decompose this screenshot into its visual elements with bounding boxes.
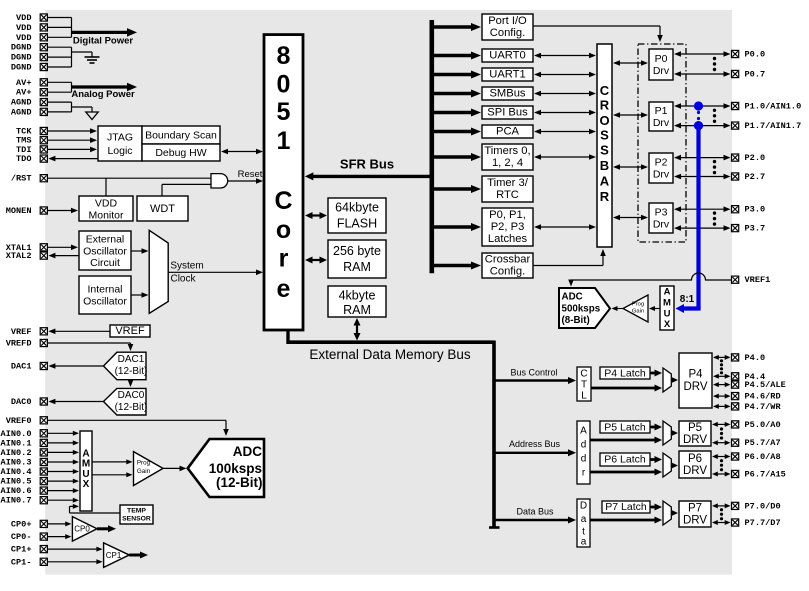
svg-text:O: O [599,113,609,128]
svg-text:AV+: AV+ [16,78,31,88]
svg-text:CP1+: CP1+ [11,545,32,555]
svg-text:P0, P1,: P0, P1, [489,209,526,221]
svg-text:TDO: TDO [16,154,31,164]
svg-text:JTAG: JTAG [107,132,133,144]
svg-text:SPI Bus: SPI Bus [487,107,528,119]
svg-text:Analog Power: Analog Power [71,89,135,100]
svg-text:DRV: DRV [683,465,707,477]
svg-text:DAC0: DAC0 [118,390,145,401]
svg-text:TEMP: TEMP [127,508,146,515]
svg-text:P7.7/D7: P7.7/D7 [745,518,781,528]
svg-text:Debug HW: Debug HW [155,147,206,159]
svg-text:R: R [600,189,610,204]
svg-text:AIN0.1: AIN0.1 [1,438,32,448]
svg-text:DAC1: DAC1 [11,362,32,372]
svg-text:AIN0.4: AIN0.4 [1,467,32,477]
svg-text:XTAL2: XTAL2 [6,251,32,261]
svg-text:P2.7: P2.7 [745,172,766,182]
svg-text:DRV: DRV [683,515,707,527]
svg-text:A: A [600,174,610,189]
svg-text:P6: P6 [688,453,702,465]
svg-text:P0.0: P0.0 [745,50,766,60]
svg-text:Drv: Drv [653,219,670,231]
svg-text:AIN0.6: AIN0.6 [1,486,32,496]
svg-text:Reset: Reset [238,169,263,180]
svg-text:P3.7: P3.7 [745,224,766,234]
svg-text:R: R [600,98,610,113]
svg-text:P3: P3 [655,207,668,219]
svg-text:RTC: RTC [496,189,519,201]
svg-text:AIN0.5: AIN0.5 [1,477,32,487]
svg-text:P4.7/WR: P4.7/WR [745,402,782,412]
svg-text:CP0: CP0 [74,525,90,534]
svg-text:P6.7/A15: P6.7/A15 [745,470,786,480]
svg-text:CP1-: CP1- [11,557,32,567]
svg-text:B: B [600,158,609,173]
svg-text:e: e [277,275,291,303]
svg-text:Address Bus: Address Bus [509,439,561,449]
svg-text:DAC0: DAC0 [11,397,32,407]
svg-text:X: X [83,479,90,490]
svg-text:P6.0/A8: P6.0/A8 [745,452,781,462]
svg-text:Digital Power: Digital Power [73,35,133,46]
svg-text:X: X [664,319,671,330]
svg-text:SENSOR: SENSOR [122,516,151,523]
svg-text:UART0: UART0 [489,50,525,62]
svg-text:P2, P3: P2, P3 [491,221,525,233]
svg-text:P4.5/ALE: P4.5/ALE [745,380,786,390]
svg-text:256 byte: 256 byte [333,244,381,258]
svg-text:(8-Bit): (8-Bit) [562,315,590,326]
svg-text:Oscillator: Oscillator [83,296,127,308]
svg-text:Drv: Drv [653,169,670,181]
svg-text:(12-Bit): (12-Bit) [115,402,148,413]
svg-text:d: d [581,454,587,465]
svg-text:C: C [274,187,292,215]
svg-text:a: a [581,514,587,525]
svg-text:DGND: DGND [11,63,32,73]
svg-text:Monitor: Monitor [88,210,124,222]
svg-text:T: T [581,380,587,391]
svg-text:Boundary Scan: Boundary Scan [145,130,217,142]
svg-text:5: 5 [277,98,291,126]
svg-text:DGND: DGND [11,43,32,53]
svg-text:AGND: AGND [11,107,32,117]
svg-text:MONEN: MONEN [6,206,32,216]
svg-text:AIN0.2: AIN0.2 [1,448,32,458]
svg-text:Clock: Clock [170,274,196,285]
svg-text:A: A [664,287,671,298]
svg-text:SFR Bus: SFR Bus [340,157,394,172]
svg-text:System: System [170,261,203,272]
svg-text:0: 0 [277,71,291,99]
svg-text:AGND: AGND [11,98,32,108]
svg-text:External: External [86,234,125,246]
svg-text:VDD: VDD [16,23,31,33]
svg-text:PCA: PCA [496,126,520,138]
svg-text:P0: P0 [655,53,668,65]
svg-text:P6 Latch: P6 Latch [604,454,646,466]
svg-text:Crossbar: Crossbar [485,254,531,266]
svg-text:Logic: Logic [107,145,132,157]
svg-text:8:1: 8:1 [680,294,695,305]
svg-text:Gain: Gain [632,309,644,315]
svg-text:Port I/O: Port I/O [488,15,527,27]
svg-text:RAM: RAM [343,260,371,274]
svg-text:C: C [600,83,610,98]
svg-text:VDD: VDD [95,198,118,210]
svg-text:Latches: Latches [488,233,528,245]
svg-text:P0.7: P0.7 [745,70,766,80]
svg-text:1: 1 [277,127,291,155]
svg-text:A: A [580,426,587,437]
svg-text:P2.0: P2.0 [745,153,766,163]
svg-text:External Data Memory Bus: External Data Memory Bus [309,347,471,362]
svg-text:UART1: UART1 [489,69,525,81]
svg-text:ADC: ADC [562,292,583,303]
svg-text:P4: P4 [688,369,703,381]
svg-text:Internal: Internal [87,284,122,296]
svg-text:C: C [580,369,587,380]
svg-text:Prog: Prog [137,460,151,467]
svg-text:VREF: VREF [115,325,145,337]
svg-text:DRV: DRV [683,381,707,393]
svg-text:P4.6/RD: P4.6/RD [745,392,781,402]
svg-text:L: L [581,391,587,402]
svg-text:SMBus: SMBus [489,88,525,100]
svg-text:VDD: VDD [16,33,31,43]
svg-text:Circuit: Circuit [90,257,120,269]
svg-text:P5.7/A7: P5.7/A7 [745,438,781,448]
svg-text:d: d [581,440,587,451]
svg-text:DAC1: DAC1 [118,354,145,365]
svg-text:P7.0/D0: P7.0/D0 [745,501,781,511]
svg-text:WDT: WDT [150,203,175,215]
svg-text:Config.: Config. [490,266,525,278]
svg-text:P5: P5 [688,422,702,434]
svg-text:P5 Latch: P5 Latch [604,422,646,434]
svg-text:CP1: CP1 [106,551,122,560]
svg-text:CP0+: CP0+ [11,519,32,529]
svg-text:VREF: VREF [11,327,32,337]
svg-text:VDD: VDD [16,13,31,23]
svg-text:P7 Latch: P7 Latch [605,501,647,513]
svg-text:(12-Bit): (12-Bit) [115,366,148,377]
svg-text:U: U [664,308,671,319]
svg-text:AIN0.3: AIN0.3 [1,458,32,468]
svg-text:CP0-: CP0- [11,532,32,542]
svg-text:P3.0: P3.0 [745,205,766,215]
svg-text:Gain: Gain [137,468,151,475]
svg-text:1, 2, 4: 1, 2, 4 [492,157,523,169]
svg-text:Bus Control: Bus Control [510,368,557,378]
svg-text:VREF1: VREF1 [745,275,771,285]
svg-text:ADC: ADC [233,444,262,459]
svg-text:/RST: /RST [11,174,32,184]
svg-text:RAM: RAM [343,303,371,317]
svg-text:a: a [581,537,587,548]
svg-text:o: o [276,216,291,244]
svg-text:r: r [279,245,289,273]
svg-text:FLASH: FLASH [337,217,377,231]
svg-text:Drv: Drv [653,117,670,129]
svg-text:100ksps: 100ksps [209,461,262,476]
svg-text:Timers 0,: Timers 0, [484,145,530,157]
svg-text:P1: P1 [655,105,668,117]
svg-text:8: 8 [277,42,291,70]
svg-text:VREFD: VREFD [6,339,32,349]
svg-text:P1.0/AIN1.0: P1.0/AIN1.0 [745,102,802,112]
svg-text:D: D [580,501,587,512]
svg-text:Timer 3/: Timer 3/ [487,177,529,189]
svg-text:4kbyte: 4kbyte [339,289,376,303]
svg-text:DRV: DRV [683,434,707,446]
svg-text:Prog: Prog [632,302,644,308]
svg-text:DGND: DGND [11,53,32,63]
svg-text:(12-Bit): (12-Bit) [216,475,263,490]
svg-text:AIN0.7: AIN0.7 [1,496,32,506]
svg-text:500ksps: 500ksps [562,304,601,315]
svg-text:AV+: AV+ [16,88,31,98]
svg-text:Oscillator: Oscillator [83,246,127,258]
svg-text:P2: P2 [655,157,668,169]
svg-text:P5.0/A0: P5.0/A0 [745,420,781,430]
svg-text:Data Bus: Data Bus [516,507,554,517]
svg-text:P4.0: P4.0 [745,353,766,363]
svg-text:AIN0.0: AIN0.0 [1,429,32,439]
svg-text:Drv: Drv [653,65,670,77]
svg-text:P7: P7 [688,503,702,515]
svg-text:64kbyte: 64kbyte [335,201,379,215]
svg-text:P4 Latch: P4 Latch [604,368,646,380]
svg-text:M: M [663,298,671,309]
svg-text:S: S [600,128,609,143]
svg-text:P1.7/AIN1.7: P1.7/AIN1.7 [745,121,802,131]
svg-text:S: S [600,142,609,157]
svg-text:Config.: Config. [490,27,525,39]
svg-text:VREF0: VREF0 [6,416,32,426]
